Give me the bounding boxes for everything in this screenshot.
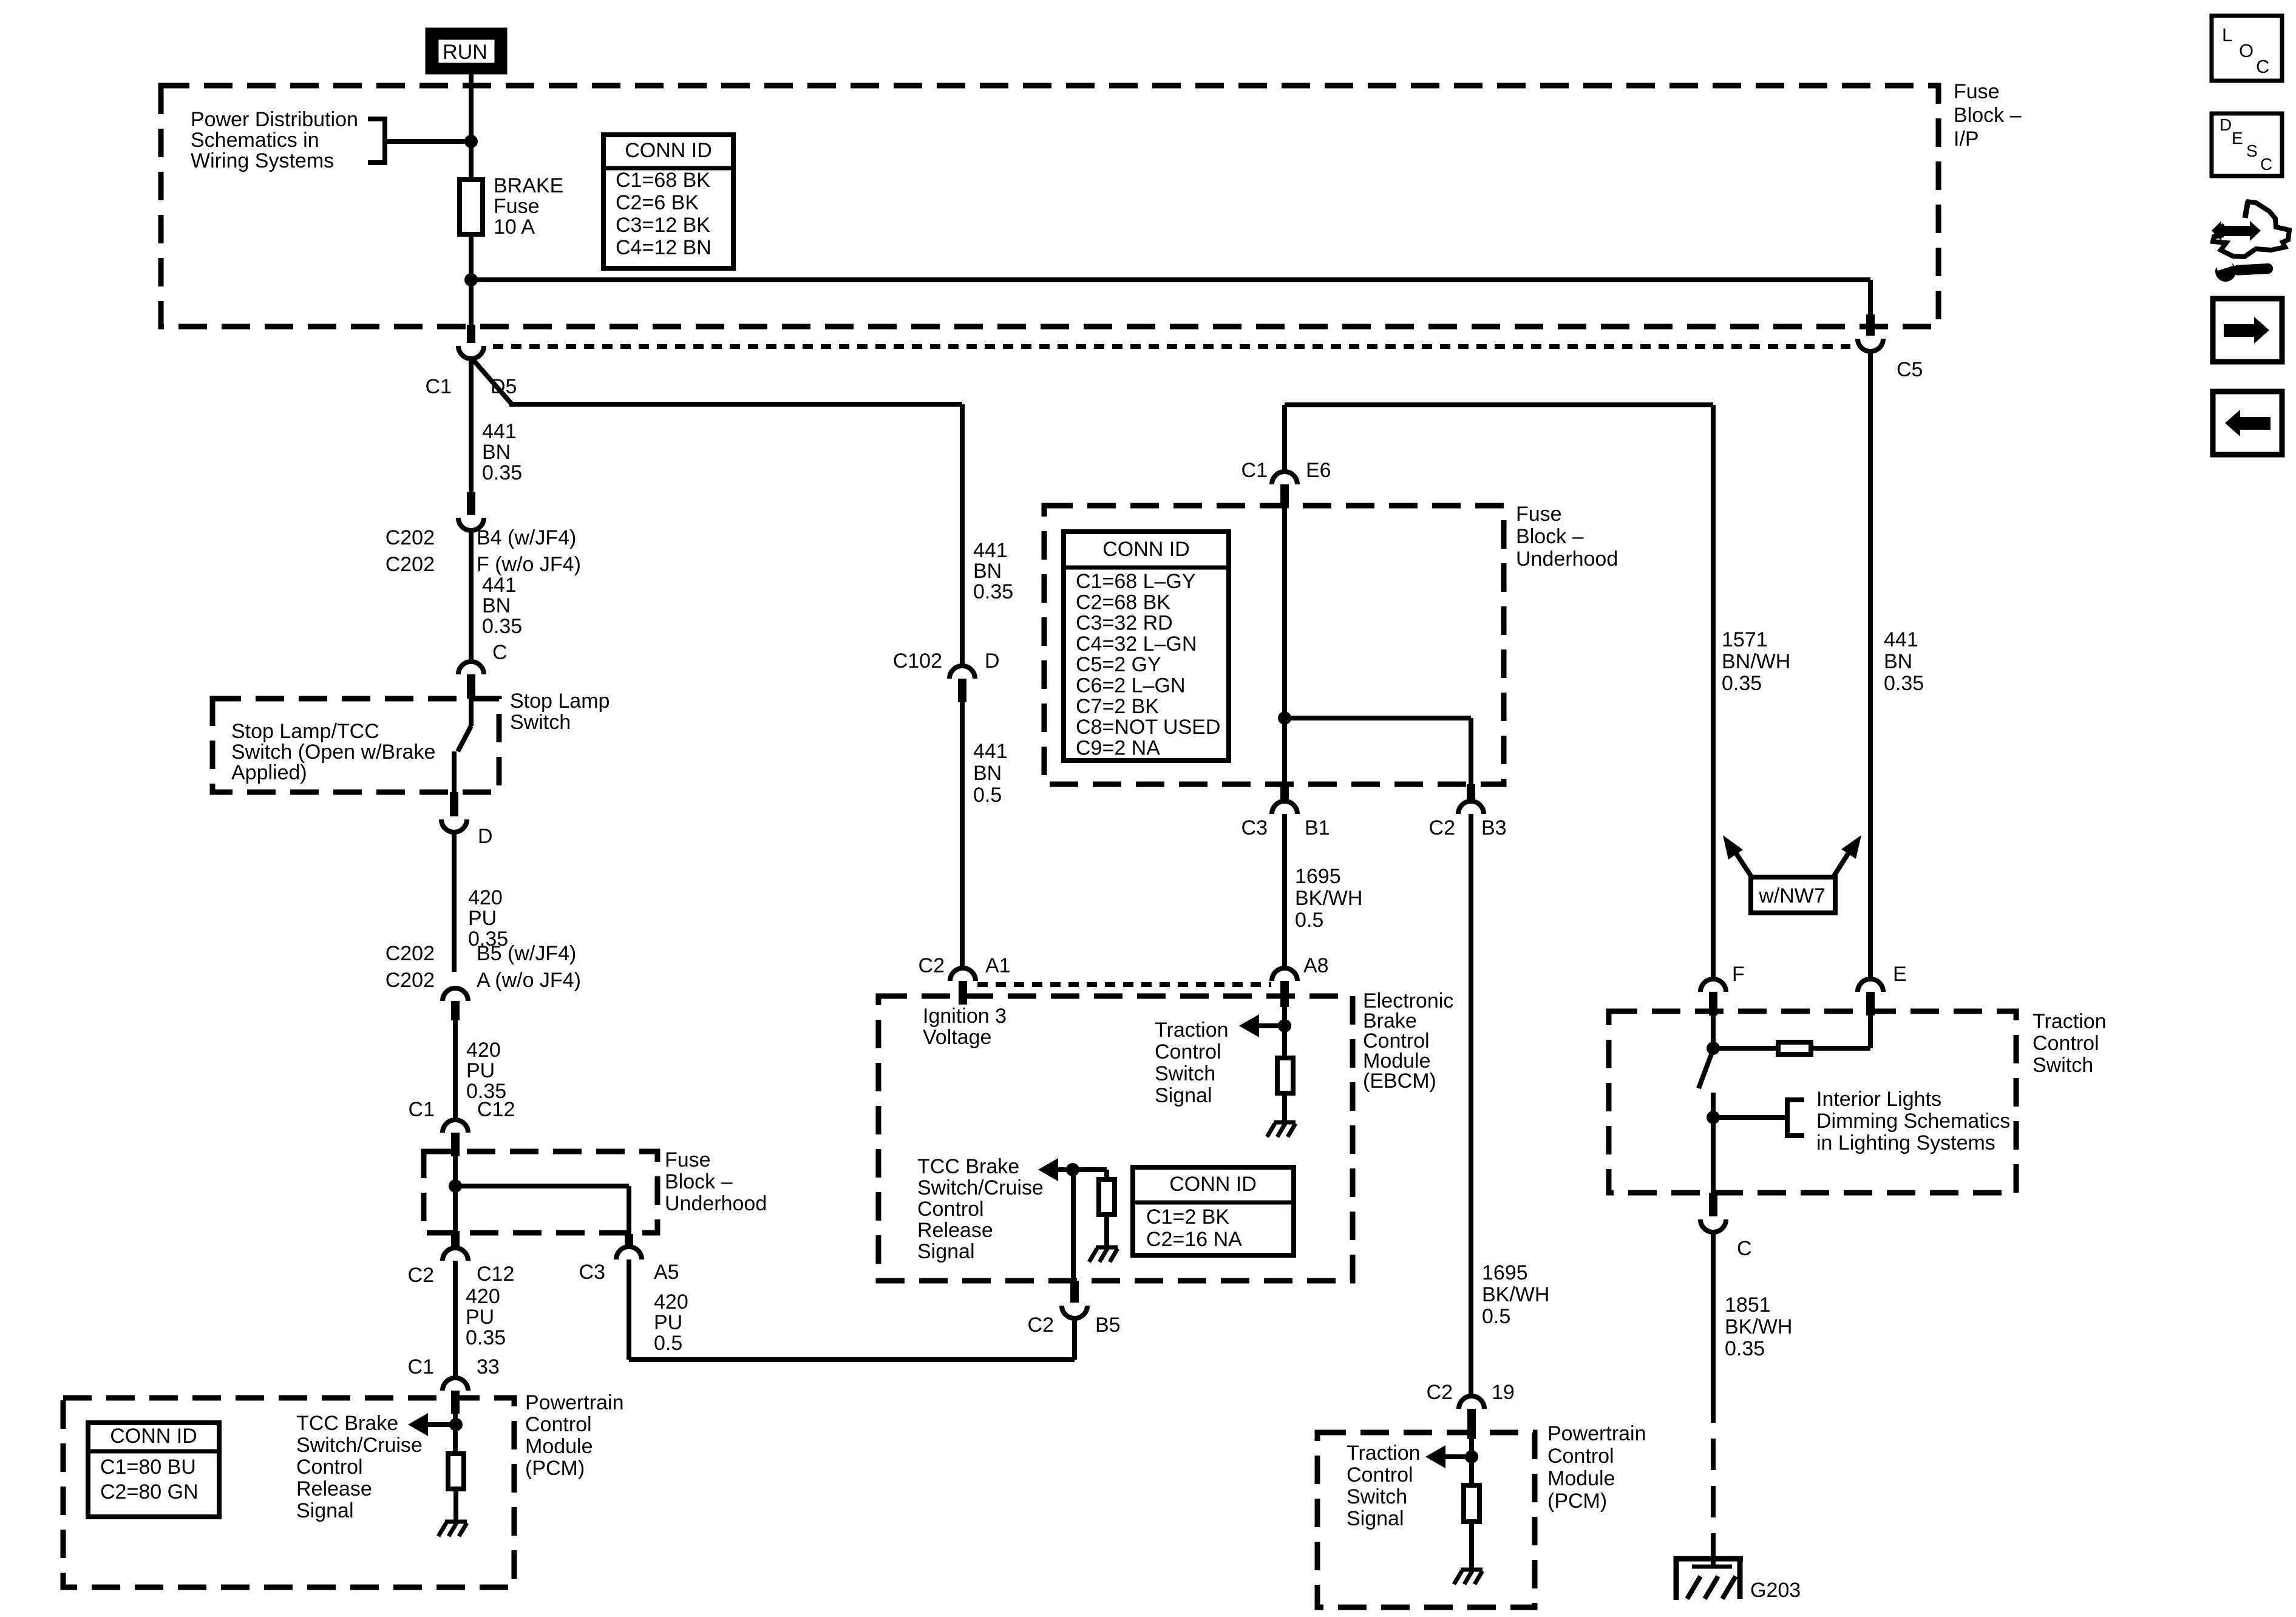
wire: bracket to RUN feed	[385, 139, 471, 144]
svg-text:Switch: Switch	[2033, 1054, 2093, 1077]
signal arrow (PCM traction control)	[1425, 1445, 1445, 1468]
icon: DESC button	[2212, 114, 2282, 176]
svg-text:C2: C2	[1427, 1381, 1453, 1404]
connector C2 pin B5 (male)	[1070, 1281, 1079, 1303]
svg-text:Fuse: Fuse	[665, 1148, 711, 1171]
wire: B5 up to TCC junction	[1071, 1170, 1076, 1281]
wire: F into switch	[1711, 1015, 1716, 1051]
svg-text:F (w/o JF4): F (w/o JF4)	[477, 553, 581, 576]
resistor (EBCM pull-up)	[1277, 1058, 1293, 1093]
svg-text:Module: Module	[525, 1435, 593, 1458]
svg-text:Control: Control	[1547, 1445, 1614, 1468]
svg-text:Schematics in: Schematics in	[191, 129, 319, 152]
PCM dashed box (right)	[1317, 1432, 1535, 1607]
connector C202 pin B4/F (male)	[467, 492, 475, 515]
svg-text:Dimming Schematics: Dimming Schematics	[1816, 1110, 2010, 1133]
svg-text:Underhood: Underhood	[665, 1192, 767, 1215]
connector C102 pin D (male)	[958, 679, 966, 702]
svg-text:10 A: 10 A	[494, 215, 535, 239]
svg-text:C: C	[492, 641, 508, 664]
connector C202 lower pin B5/A (male)	[451, 1001, 460, 1020]
svg-text:Control: Control	[525, 1413, 592, 1436]
resistor (EBCM TCC)	[1099, 1179, 1115, 1215]
Stop Lamp/TCC switch dashed box	[212, 699, 499, 792]
svg-text:C4=32 L–GN: C4=32 L–GN	[1076, 632, 1197, 656]
svg-text:BK/WH: BK/WH	[1482, 1283, 1549, 1306]
wire 420 PU 0.35 (C2 to PCM C1)	[453, 1261, 458, 1378]
svg-text:Powertrain: Powertrain	[525, 1391, 624, 1414]
resistor (PCM)	[448, 1454, 464, 1489]
svg-text:C2=16 NA: C2=16 NA	[1146, 1228, 1242, 1251]
connector C (stop lamp switch, female arc)	[458, 662, 484, 674]
svg-text:B5 (w/JF4): B5 (w/JF4)	[477, 942, 576, 965]
svg-text:C5=2 GY: C5=2 GY	[1076, 653, 1161, 676]
connector A8 pin (male)	[1280, 981, 1289, 1007]
connector D (female arc)	[441, 819, 467, 832]
svg-text:B1: B1	[1305, 816, 1330, 839]
wire: to EBCM TCC resistor	[1104, 1170, 1109, 1179]
connector C2 pin B5 (female arc)	[1062, 1306, 1087, 1318]
w/NW7 callout box and arrows	[1751, 877, 1835, 913]
connector D pin (male)	[450, 792, 458, 816]
svg-text:0.35: 0.35	[1722, 672, 1762, 695]
svg-text:441: 441	[482, 574, 517, 597]
wire 1851 dashed to G203	[1711, 1391, 1716, 1556]
svg-text:CONN ID: CONN ID	[625, 139, 712, 162]
svg-text:C3=32 RD: C3=32 RD	[1076, 612, 1173, 635]
connector C102 pin D (female arc)	[949, 666, 975, 679]
connector F pin (male)	[1709, 992, 1717, 1015]
wire: pin 33 into PCM	[453, 1414, 458, 1454]
svg-text:441: 441	[1884, 628, 1918, 651]
CONN ID table (Fuse Block I/P)	[603, 135, 733, 268]
svg-text:w/NW7: w/NW7	[1758, 884, 1826, 907]
connector C202 (female arc)	[458, 518, 484, 531]
svg-text:Block –: Block –	[1516, 525, 1584, 548]
Fuse Block Underhood big dashed box	[1044, 506, 1504, 784]
svg-text:C7=2 BK: C7=2 BK	[1076, 695, 1159, 718]
svg-text:D: D	[2220, 115, 2232, 134]
svg-text:C2=6 BK: C2=6 BK	[616, 191, 699, 214]
connector A8 (female arc)	[1272, 968, 1297, 981]
svg-text:Control: Control	[2033, 1032, 2099, 1055]
connector C3 pin A5 (male)	[625, 1234, 633, 1247]
svg-text:C: C	[2260, 155, 2272, 174]
Traction Control Switch dashed box	[1609, 1011, 2016, 1193]
junction: switch common	[1707, 1042, 1720, 1055]
junction in underhood fuse block	[1278, 711, 1291, 725]
wire 420 PU 0.35 (D to C202)	[452, 832, 457, 972]
wire: fused output bus to C5	[471, 277, 1870, 282]
svg-text:A8: A8	[1303, 954, 1329, 977]
junction: power distribution tap	[464, 135, 478, 148]
svg-text:C3: C3	[1241, 816, 1268, 839]
svg-text:Signal: Signal	[917, 1240, 975, 1263]
wire: resistor to ground	[1282, 1093, 1287, 1122]
svg-text:1695: 1695	[1482, 1261, 1528, 1284]
svg-text:Block –: Block –	[665, 1170, 733, 1193]
svg-text:A5: A5	[654, 1261, 679, 1284]
svg-text:0.35: 0.35	[973, 580, 1013, 603]
connector C2 pin A1 (female arc)	[950, 968, 976, 981]
signal arrow (TCC brake release)	[1038, 1158, 1058, 1181]
svg-text:Stop Lamp: Stop Lamp	[510, 690, 610, 713]
svg-text:Powertrain: Powertrain	[1547, 1422, 1646, 1445]
ground (PCM right)	[1454, 1570, 1483, 1584]
svg-text:I/P: I/P	[1954, 127, 1979, 151]
svg-text:Ignition 3: Ignition 3	[923, 1005, 1007, 1028]
connector C5 pin (male)	[1866, 314, 1875, 336]
svg-text:A1: A1	[985, 954, 1011, 977]
wire: fuse block jumper horizontal	[455, 1184, 629, 1188]
svg-text:Release: Release	[917, 1219, 993, 1242]
svg-text:0.35: 0.35	[466, 1326, 506, 1349]
svg-text:Control: Control	[1155, 1040, 1221, 1063]
svg-text:Module: Module	[1547, 1467, 1615, 1490]
svg-text:C202: C202	[385, 969, 435, 992]
svg-text:C2: C2	[919, 954, 945, 977]
svg-text:(PCM): (PCM)	[1547, 1490, 1607, 1513]
connector C (female arc, switch)	[1700, 1219, 1726, 1232]
connector C2 pin C12 (female arc)	[443, 1248, 468, 1261]
svg-text:CONN ID: CONN ID	[1102, 538, 1190, 561]
junction: traction control switch signal	[1278, 1019, 1291, 1032]
svg-text:C6=2 L–GN: C6=2 L–GN	[1076, 674, 1186, 697]
svg-text:B4 (w/JF4): B4 (w/JF4)	[477, 526, 576, 549]
svg-text:A (w/o JF4): A (w/o JF4)	[477, 969, 581, 992]
wire: PCM resistor to ground	[453, 1489, 458, 1522]
wire: D5 diagonal branch	[471, 358, 513, 405]
wire 420 PU 0.5 (A5 down)	[627, 1259, 631, 1360]
svg-text:CONN ID: CONN ID	[110, 1425, 197, 1448]
svg-text:BN: BN	[1884, 650, 1912, 673]
ignition switch RUN terminal box	[430, 32, 503, 70]
icon: LOC button	[2212, 16, 2282, 81]
junction: traction control switch signal (PCM)	[1465, 1450, 1478, 1463]
wire: RUN feed down to C1	[469, 70, 474, 325]
svg-text:BN: BN	[482, 441, 511, 464]
wire 441 BN 0.5 (C102 to C2/A1)	[960, 702, 965, 968]
svg-text:C202: C202	[385, 942, 435, 965]
connector C2 pin C12 (male)	[451, 1231, 460, 1248]
svg-text:0.5: 0.5	[654, 1332, 682, 1355]
svg-text:420: 420	[468, 886, 503, 909]
signal arrow (traction control switch signal)	[1239, 1014, 1259, 1037]
connector C1 pin D5 (male)	[467, 325, 475, 343]
connector C2 pin B3 (male)	[1467, 784, 1475, 801]
connector C202 lower (female arc)	[443, 988, 468, 1001]
svg-text:Interior Lights: Interior Lights	[1816, 1088, 1941, 1111]
svg-text:Control: Control	[917, 1198, 984, 1221]
svg-text:C12: C12	[477, 1263, 514, 1286]
connector C1 pin 33 (male)	[451, 1391, 460, 1414]
svg-text:Release: Release	[296, 1477, 372, 1500]
EBCM connector dotted line A1-A8	[977, 982, 1271, 987]
svg-text:0.35: 0.35	[1725, 1337, 1765, 1360]
wire: arrow stub	[1258, 1023, 1285, 1028]
svg-text:PU: PU	[466, 1306, 494, 1329]
svg-text:D: D	[985, 649, 1000, 673]
svg-text:S: S	[2246, 141, 2258, 160]
traction control switch blade	[1699, 1053, 1712, 1088]
svg-text:C3=12 BK: C3=12 BK	[616, 214, 710, 237]
svg-text:Switch: Switch	[510, 711, 571, 734]
wire: E6 to F horizontal	[1285, 402, 1713, 407]
svg-text:O: O	[2239, 40, 2254, 61]
svg-text:Control: Control	[1347, 1463, 1413, 1486]
svg-text:33: 33	[477, 1355, 500, 1378]
svg-text:0.5: 0.5	[1482, 1305, 1510, 1328]
svg-text:PU: PU	[654, 1311, 682, 1334]
svg-text:C: C	[2256, 56, 2269, 77]
svg-text:BN/WH: BN/WH	[1722, 650, 1790, 673]
svg-text:C2=68 BK: C2=68 BK	[1076, 591, 1170, 614]
wire 420 PU 0.5 horizontal to C2/B5	[629, 1357, 1075, 1362]
svg-text:C2: C2	[408, 1264, 434, 1287]
wire 441 BN 0.35 (C1-D5 to C202)	[469, 359, 474, 492]
Fuse Block - I/P dashed outline	[161, 86, 1938, 327]
junction in small fuse block	[449, 1179, 462, 1193]
reference bracket (power distribution)	[368, 119, 385, 163]
svg-text:Fuse: Fuse	[494, 195, 540, 218]
svg-text:BK/WH: BK/WH	[1295, 887, 1362, 910]
svg-text:0.5: 0.5	[1295, 909, 1323, 932]
CONN ID table (Fuse Block Underhood)	[1064, 532, 1229, 761]
TCC brake junction & arrow (EBCM)	[1058, 1167, 1107, 1172]
wire: D5 branch horizontal	[509, 402, 962, 407]
svg-text:Control: Control	[296, 1456, 363, 1479]
wire 420 PU 0.5 up to C2/B5	[1072, 1318, 1077, 1360]
wire: resistor to ground (PCM right)	[1469, 1522, 1474, 1570]
svg-text:RUN: RUN	[443, 41, 487, 64]
connector C2 pin B3 (female arc)	[1458, 801, 1484, 814]
svg-text:C4=12 BN: C4=12 BN	[616, 236, 712, 259]
wire: pin 19 into PCM	[1469, 1439, 1474, 1485]
svg-text:C202: C202	[385, 526, 435, 549]
wire: fuse block jumper drop	[627, 1186, 631, 1234]
connector C2 pin A1 (male)	[959, 981, 967, 1005]
svg-text:19: 19	[1492, 1381, 1515, 1404]
svg-text:Traction: Traction	[1347, 1442, 1421, 1465]
svg-text:C3: C3	[579, 1261, 605, 1284]
svg-text:Voltage: Voltage	[923, 1026, 991, 1049]
svg-text:0.35: 0.35	[1884, 672, 1924, 695]
svg-text:Traction: Traction	[2033, 1010, 2107, 1033]
svg-text:PU: PU	[468, 907, 497, 930]
wire: arrow stub (PCM right)	[1445, 1454, 1472, 1459]
connector C pin (male)	[467, 674, 475, 699]
wire: switch lower contact	[452, 751, 457, 792]
svg-text:G203: G203	[1750, 1579, 1801, 1602]
connector C pin (male, switch)	[1709, 1193, 1717, 1216]
wire: underhood jumper horizontal	[1285, 716, 1471, 720]
svg-text:B5: B5	[1095, 1314, 1121, 1337]
svg-text:1851: 1851	[1725, 1293, 1771, 1317]
connector C1 pin 33 (female arc)	[443, 1378, 468, 1391]
wire 1695 BK/WH 0.5 (B3 to PCM)	[1469, 814, 1473, 1396]
svg-text:F: F	[1732, 963, 1745, 986]
svg-text:(EBCM): (EBCM)	[1363, 1070, 1436, 1093]
ground G203	[1674, 1545, 1743, 1600]
svg-text:BN: BN	[973, 560, 1002, 583]
wire: E6 through fuse block	[1282, 508, 1287, 784]
svg-text:C1=68 BK: C1=68 BK	[616, 169, 710, 192]
wire: E6 riser	[1282, 405, 1287, 472]
svg-text:TCC Brake: TCC Brake	[296, 1412, 398, 1435]
wire 441 BN 0.35 (C5 to E)	[1868, 351, 1873, 979]
svg-text:Switch/Cruise: Switch/Cruise	[296, 1434, 423, 1457]
svg-text:C2=80 GN: C2=80 GN	[100, 1480, 199, 1503]
wire 441 BN 0.35 (C202 to stop lamp switch)	[469, 531, 474, 662]
svg-text:BRAKE: BRAKE	[494, 174, 563, 197]
wire: to switch resistor	[1713, 1046, 1870, 1051]
connector F (female arc)	[1700, 979, 1726, 992]
connector C3 pin A5 (female arc)	[616, 1247, 642, 1259]
Fuse Block Underhood small dashed box	[424, 1151, 657, 1233]
svg-text:D: D	[478, 825, 493, 848]
svg-text:0.35: 0.35	[482, 461, 522, 484]
connector C1 pin E6 (male)	[1280, 484, 1289, 508]
svg-text:Block –: Block –	[1954, 104, 2022, 127]
svg-text:C8=NOT USED: C8=NOT USED	[1076, 716, 1220, 739]
svg-text:C: C	[1737, 1237, 1752, 1260]
svg-text:C5: C5	[1897, 358, 1923, 381]
svg-text:B3: B3	[1481, 816, 1507, 839]
svg-text:Signal: Signal	[1155, 1084, 1212, 1107]
svg-text:Traction: Traction	[1155, 1019, 1229, 1042]
svg-text:Signal: Signal	[1347, 1507, 1404, 1530]
svg-text:E: E	[2232, 129, 2243, 147]
svg-text:L: L	[2222, 24, 2232, 46]
svg-text:Switch: Switch	[1155, 1062, 1215, 1085]
svg-text:Signal: Signal	[296, 1499, 354, 1522]
svg-text:in Lighting Systems: in Lighting Systems	[1816, 1131, 1995, 1154]
svg-text:(PCM): (PCM)	[525, 1457, 585, 1480]
svg-text:0.5: 0.5	[973, 784, 1002, 807]
wire 420 PU 0.35 (C202 to C1)	[453, 1020, 458, 1120]
svg-text:441: 441	[973, 740, 1008, 763]
stop lamp switch blade	[469, 699, 474, 726]
connector C3 pin B1 (female arc)	[1272, 801, 1297, 814]
svg-text:E6: E6	[1306, 459, 1331, 482]
EBCM dashed box	[878, 996, 1353, 1281]
wire: switch output	[1711, 1093, 1716, 1193]
CONN ID table (EBCM)	[1133, 1167, 1294, 1255]
wire: through small fuse block	[453, 1156, 458, 1231]
svg-text:C102: C102	[893, 649, 942, 673]
resistor (switch illumination)	[1778, 1042, 1811, 1054]
wire: A8 to resistor	[1282, 1007, 1287, 1058]
svg-text:C2: C2	[1028, 1314, 1054, 1337]
svg-text:420: 420	[466, 1039, 501, 1062]
svg-text:C1=68 L–GY: C1=68 L–GY	[1076, 570, 1196, 593]
wire 1851 BK/WH 0.35	[1711, 1232, 1716, 1391]
connector C1 pin E6 (female arc)	[1272, 472, 1297, 484]
svg-text:420: 420	[654, 1290, 688, 1314]
I/P connector dotted line C1-C5	[493, 344, 1850, 349]
svg-text:1695: 1695	[1295, 865, 1341, 888]
fuse BRAKE 10A	[460, 180, 483, 234]
icon: back arrow button	[2213, 392, 2282, 455]
wire: to dimming bracket	[1713, 1115, 1787, 1120]
signal arrow (PCM TCC brake)	[408, 1413, 428, 1436]
svg-text:Switch/Cruise: Switch/Cruise	[917, 1176, 1044, 1199]
connector C5 (female arc)	[1858, 339, 1883, 351]
svg-text:Fuse: Fuse	[1954, 80, 2000, 103]
svg-text:C1: C1	[1241, 459, 1268, 482]
reference bracket (interior lights dimming)	[1787, 1100, 1804, 1136]
svg-text:Applied): Applied)	[231, 761, 307, 784]
svg-text:BN: BN	[973, 762, 1002, 785]
PCM dashed box (left)	[63, 1398, 514, 1587]
svg-text:0.35: 0.35	[482, 615, 522, 638]
connector C1 pin C12 (male)	[451, 1133, 460, 1156]
svg-text:CONN ID: CONN ID	[1169, 1173, 1257, 1196]
wire 1695 BK/WH 0.5 (B1 to A8)	[1282, 814, 1287, 968]
svg-text:420: 420	[466, 1285, 500, 1308]
svg-text:E: E	[1893, 963, 1907, 986]
wire: EBCM TCC resistor to ground	[1104, 1215, 1109, 1247]
icon: forward arrow button	[2213, 299, 2282, 362]
svg-text:PU: PU	[466, 1059, 495, 1082]
svg-text:Stop Lamp/TCC: Stop Lamp/TCC	[231, 720, 379, 743]
wire 1571 BN/WH 0.35 (to F)	[1711, 405, 1716, 979]
svg-text:C9=2 NA: C9=2 NA	[1076, 736, 1160, 759]
svg-text:441: 441	[482, 420, 517, 443]
icon: vehicle/wrench	[2212, 201, 2289, 282]
connector C2 pin 19 (male)	[1467, 1409, 1476, 1439]
ground (EBCM TCC)	[1089, 1247, 1118, 1262]
svg-text:Switch: Switch	[1347, 1485, 1407, 1508]
wire: resistor to E	[1868, 1015, 1873, 1048]
wire: arrow stub (PCM)	[427, 1422, 456, 1427]
svg-text:C1: C1	[426, 375, 452, 398]
svg-text:TCC Brake: TCC Brake	[917, 1155, 1019, 1178]
svg-text:BK/WH: BK/WH	[1725, 1315, 1792, 1338]
wire: underhood jumper drop to B3	[1469, 718, 1473, 784]
junction: TCC brake signal	[1066, 1163, 1079, 1176]
svg-text:Wiring Systems: Wiring Systems	[191, 149, 334, 172]
ground (EBCM internal)	[1267, 1122, 1296, 1137]
svg-text:C1: C1	[409, 1098, 435, 1121]
connector C2 pin 19 (female arc)	[1459, 1396, 1484, 1409]
svg-text:C202: C202	[385, 553, 435, 576]
junction: fuse output	[464, 273, 478, 286]
connector E pin (male)	[1866, 992, 1875, 1015]
svg-text:C1: C1	[408, 1355, 434, 1378]
wire: bus drop to C5	[1868, 280, 1873, 314]
svg-text:1571: 1571	[1722, 628, 1768, 651]
svg-text:C1=2 BK: C1=2 BK	[1146, 1205, 1229, 1229]
connector C1 pin D5 (female arc)	[458, 346, 484, 359]
connector C3 pin B1 (male)	[1280, 784, 1289, 801]
svg-text:Switch (Open w/Brake: Switch (Open w/Brake	[231, 741, 435, 764]
svg-text:Underhood: Underhood	[1516, 547, 1618, 571]
svg-text:BN: BN	[482, 594, 511, 617]
ground (PCM)	[438, 1522, 467, 1536]
svg-text:Fuse: Fuse	[1516, 503, 1562, 526]
connector C1 pin C12 (female arc)	[443, 1120, 468, 1133]
junction: TCC brake release signal	[449, 1418, 463, 1431]
svg-text:C12: C12	[477, 1098, 515, 1121]
svg-text:Power Distribution: Power Distribution	[191, 108, 358, 131]
resistor (PCM right)	[1464, 1485, 1479, 1522]
CONN ID table (PCM left)	[88, 1423, 219, 1517]
junction: interior lights dimming tap	[1707, 1111, 1720, 1124]
svg-text:441: 441	[973, 539, 1008, 562]
svg-text:C2: C2	[1429, 816, 1455, 839]
svg-text:C1=80 BU: C1=80 BU	[100, 1456, 196, 1479]
